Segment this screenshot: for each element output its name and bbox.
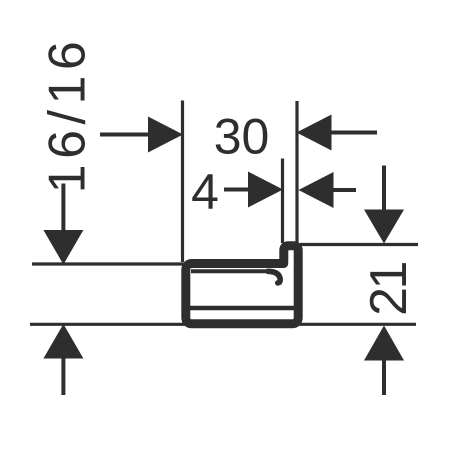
svg-text:30: 30	[214, 109, 270, 165]
dimension 30 right arrow	[297, 115, 378, 151]
dimension 4 left arrow	[224, 172, 283, 208]
product inner top wall with curl	[191, 269, 269, 273]
top-left guide line (top of body)	[32, 262, 184, 265]
bottom guide line	[30, 323, 416, 326]
dimension 16/16 up arrow	[43, 324, 83, 395]
svg-text:21: 21	[360, 263, 418, 316]
dimension 4 right arrow	[299, 172, 357, 208]
product profile outer outline	[186, 246, 298, 324]
dimension 21 up arrow	[364, 326, 404, 396]
dimension 30 left arrow	[100, 117, 183, 153]
product inner bottom wall	[190, 306, 294, 311]
extension line left of 30	[181, 101, 184, 263]
top-right guide line (top of lip)	[300, 243, 418, 246]
extension line right of 30	[295, 101, 298, 243]
dimension 16/16 down arrow	[43, 184, 83, 265]
dimension 21 down arrow	[364, 166, 404, 244]
extension line left of 4	[281, 159, 284, 244]
svg-text:16/16: 16/16	[39, 36, 97, 194]
product inner wall curl	[268, 271, 280, 283]
svg-text:4: 4	[191, 164, 219, 220]
